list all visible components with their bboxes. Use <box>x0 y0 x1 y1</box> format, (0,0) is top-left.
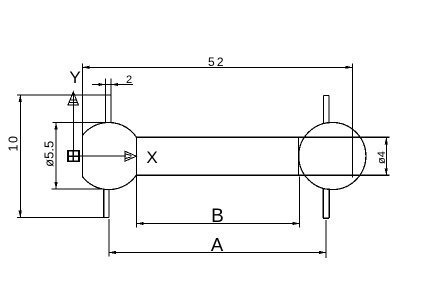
svg-text:ø4: ø4 <box>376 151 388 164</box>
svg-text:ø5.5: ø5.5 <box>42 141 57 167</box>
svg-text:10: 10 <box>6 135 20 152</box>
